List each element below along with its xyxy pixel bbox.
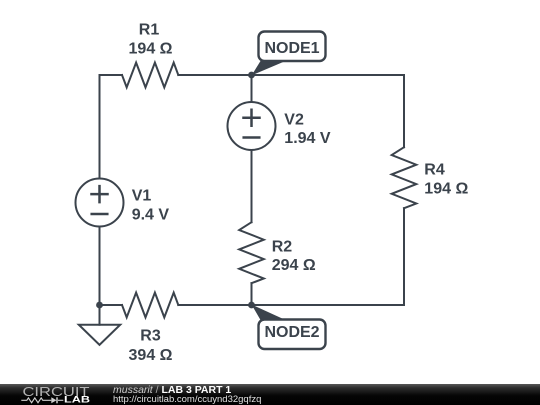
wire V2 bottom to R2 bbox=[251, 151, 253, 223]
resistor R4 bbox=[392, 147, 417, 208]
svg-text:194 Ω: 194 Ω bbox=[129, 41, 173, 58]
wire node2 to R3 bbox=[178, 304, 251, 306]
wire top-left horizontal (corner to R1) bbox=[100, 74, 123, 76]
svg-text:1.94 V: 1.94 V bbox=[284, 130, 331, 147]
wire node1 to top-right corner bbox=[252, 74, 405, 76]
wire R3 to ground node bbox=[100, 304, 123, 306]
svg-text:9.4 V: 9.4 V bbox=[132, 207, 170, 224]
node NODE1 flag bbox=[252, 32, 326, 76]
wire bottom horizontal (right corner to node2) bbox=[252, 304, 405, 306]
voltage source V2 bbox=[228, 102, 276, 150]
svg-text:http://circuitlab.com/ccuynd32: http://circuitlab.com/ccuynd32gqfzq bbox=[113, 394, 261, 405]
svg-text:394 Ω: 394 Ω bbox=[129, 347, 173, 364]
wire left vertical (corner to V1 top) bbox=[99, 75, 101, 178]
node NODE2 flag bbox=[252, 305, 326, 350]
resistor R1 bbox=[122, 63, 178, 88]
svg-text:V2: V2 bbox=[284, 111, 304, 128]
wire right vertical top (corner to R4) bbox=[403, 75, 405, 147]
node junction dot ground node bbox=[96, 302, 103, 309]
svg-text:R2: R2 bbox=[272, 238, 293, 255]
svg-text:294 Ω: 294 Ω bbox=[272, 257, 316, 274]
resistor R3 bbox=[122, 293, 178, 318]
svg-text:R3: R3 bbox=[140, 328, 161, 345]
wire R4 to bottom-right corner bbox=[403, 208, 405, 305]
svg-text:NODE1: NODE1 bbox=[264, 40, 319, 57]
svg-text:194 Ω: 194 Ω bbox=[424, 180, 468, 197]
footer bar bbox=[0, 384, 540, 405]
wire R1 to node1 bbox=[178, 74, 251, 76]
svg-text:R4: R4 bbox=[424, 161, 445, 178]
node junction dot node1 bbox=[248, 72, 255, 79]
svg-text:V1: V1 bbox=[132, 187, 152, 204]
node junction dot node2 bbox=[248, 302, 255, 309]
wire V1 bottom to ground node bbox=[99, 227, 101, 305]
svg-text:NODE2: NODE2 bbox=[264, 324, 319, 341]
wire R2 to node2 bbox=[251, 283, 253, 305]
wire node1 to V2 top bbox=[251, 75, 253, 102]
svg-text:R1: R1 bbox=[139, 21, 160, 38]
svg-text:LAB: LAB bbox=[64, 395, 90, 405]
voltage source V1 bbox=[76, 179, 124, 227]
resistor R2 bbox=[239, 222, 264, 283]
CircuitLab logo circuit glyph bbox=[21, 397, 63, 403]
ground bbox=[79, 305, 120, 345]
